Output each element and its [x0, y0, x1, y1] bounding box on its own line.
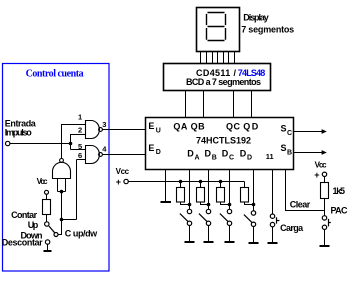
svg-text:BCD a 7 segmentos: BCD a 7 segmentos	[186, 77, 261, 87]
pin 5 label	[78, 142, 82, 151]
svg-text:3: 3	[102, 120, 106, 129]
svg-text:+: +	[314, 170, 319, 180]
svg-text:Vcc: Vcc	[315, 161, 328, 170]
svg-text:S: S	[281, 124, 287, 134]
svg-text:+: +	[116, 177, 121, 187]
svg-text:Impulso: Impulso	[5, 127, 33, 137]
svg-text:PAC: PAC	[331, 206, 349, 216]
svg-text:Contar: Contar	[11, 210, 37, 220]
display pins (7)	[201, 52, 235, 64]
node rail R2	[179, 180, 183, 184]
switch SW1 common	[54, 233, 58, 237]
resistor R4	[217, 182, 230, 205]
wire clear pin	[286, 170, 325, 211]
wire Vcc rail	[128, 181, 244, 183]
switch SW1 down contact	[45, 240, 49, 244]
nand U1B	[86, 146, 103, 164]
svg-text:Display: Display	[243, 12, 268, 22]
resistor R2	[177, 182, 190, 205]
pin 1 label	[78, 113, 82, 122]
svg-text:QC: QC	[226, 122, 241, 132]
switch SW4 (DC)	[220, 209, 232, 241]
label Control cuenta	[26, 69, 84, 80]
wire vcc to resistor	[46, 194, 48, 199]
wire pin6 to junction	[62, 219, 77, 221]
svg-text:D: D	[222, 148, 229, 158]
svg-text:C up/dw: C up/dw	[65, 228, 98, 238]
svg-text:A: A	[195, 155, 200, 162]
label C up/dw	[65, 228, 98, 238]
svg-text:1: 1	[78, 113, 82, 122]
ground (DC)	[225, 241, 235, 243]
wire down contact to ground	[47, 244, 49, 250]
svg-text:Descontar: Descontar	[2, 238, 43, 248]
display DS1 (7-segment)	[197, 8, 240, 52]
switch SW2 (DA)	[180, 209, 192, 241]
svg-text:Vcc: Vcc	[116, 167, 130, 176]
wire resistor to up contact	[46, 215, 48, 222]
label PAC	[331, 206, 349, 216]
control box (blue)	[3, 64, 110, 272]
wire DB pin	[208, 170, 210, 210]
decoder U2 CD4511/74LS48	[164, 64, 271, 91]
ground (DB)	[204, 241, 214, 243]
svg-text:B: B	[287, 149, 292, 156]
label Carga	[280, 223, 304, 233]
label Entrada Impulso	[5, 119, 37, 138]
node DD	[252, 203, 256, 207]
wire R6 to PAC	[324, 199, 326, 216]
ground (DA)	[185, 241, 195, 243]
label Down Descontar	[2, 231, 43, 248]
ground (PAC)	[320, 245, 330, 247]
ground (down)	[44, 250, 52, 252]
switch SW3 (DB)	[199, 209, 211, 241]
label Display 7 segmentos	[241, 12, 294, 34]
wire vcc to R6	[324, 177, 326, 183]
wire QB decoder-counter	[203, 91, 205, 118]
nand U1A	[86, 121, 103, 139]
svg-text:Clear: Clear	[290, 200, 311, 210]
svg-text:1k5: 1k5	[333, 186, 346, 196]
svg-text:Control cuenta: Control cuenta	[26, 69, 84, 80]
pin 2 label	[78, 126, 82, 135]
svg-text:C: C	[229, 155, 234, 162]
svg-text:U: U	[156, 127, 161, 134]
terminal Vcc (control)	[37, 177, 49, 186]
node DB	[207, 203, 211, 207]
wire pin2	[71, 135, 86, 150]
svg-text:E: E	[148, 121, 154, 131]
svg-text:QD: QD	[243, 122, 258, 132]
node DC	[228, 203, 232, 207]
wire pin6	[77, 160, 86, 220]
wire pin1	[62, 125, 86, 159]
ground (carga)	[268, 242, 278, 244]
node U1C input junction	[60, 190, 64, 194]
switch Carga (pushbutton)	[270, 214, 279, 243]
svg-text:D: D	[205, 148, 212, 158]
resistor R5	[241, 182, 254, 205]
terminal Entrada Impulso	[6, 141, 10, 145]
svg-text:2: 2	[78, 126, 82, 135]
svg-text:S: S	[281, 143, 287, 153]
node DA	[188, 203, 192, 207]
resistor R1	[43, 200, 51, 215]
ground (counter)	[161, 201, 172, 203]
svg-text:D: D	[240, 148, 247, 158]
node rail R3	[199, 180, 203, 184]
terminal Vcc + (rail)	[116, 167, 130, 187]
svg-text:74HCTLS192: 74HCTLS192	[196, 135, 251, 145]
switch SW1 lever	[49, 226, 55, 233]
nand U1C (inverter, vertical)	[53, 159, 71, 179]
wire QA decoder-counter	[185, 91, 187, 118]
label Contar Up	[11, 210, 39, 230]
wire pin 11 (carga)	[272, 170, 274, 215]
svg-text:7 segmentos: 7 segmentos	[241, 24, 294, 34]
wire QC decoder-counter	[233, 91, 235, 118]
svg-text:E: E	[148, 143, 154, 153]
label Clear	[290, 200, 311, 210]
wire entrada to junction	[10, 143, 71, 145]
svg-text:B: B	[212, 155, 217, 162]
resistor R6 1k5	[321, 183, 329, 199]
svg-text:D: D	[187, 148, 194, 158]
counter U3 74HCTLS192	[146, 118, 294, 170]
ground (DD)	[249, 242, 259, 244]
svg-text:C: C	[287, 130, 292, 137]
switch SW5 (DD)	[244, 211, 256, 243]
terminal Vcc + (right)	[314, 161, 327, 180]
label 1k5	[333, 186, 346, 196]
pin 6 label	[78, 151, 82, 160]
node SC output arrow	[294, 129, 327, 134]
wire pin4 to ED	[102, 154, 145, 156]
wire DD pin	[253, 170, 255, 211]
svg-text:11: 11	[266, 152, 274, 161]
node SB output arrow	[294, 150, 327, 155]
node entrada junction	[69, 142, 73, 146]
resistor R3	[197, 182, 209, 205]
wire DA pin	[189, 170, 191, 210]
node pin6 junction	[60, 218, 64, 222]
svg-text:QA: QA	[173, 122, 188, 132]
svg-text:Up: Up	[28, 220, 39, 230]
switch PAC (pushbutton)	[322, 216, 331, 246]
switch SW1 up contact	[45, 222, 49, 226]
svg-text:6: 6	[78, 151, 82, 160]
wire pin3 to EU	[102, 129, 145, 131]
svg-text:QB: QB	[191, 122, 206, 132]
wire counter gnd pin	[165, 170, 167, 202]
svg-text:Carga: Carga	[280, 223, 304, 233]
pin 4 label	[102, 144, 107, 153]
node rail R4	[219, 180, 223, 184]
wire DC pin	[229, 170, 231, 210]
wire inverter input down	[58, 192, 61, 235]
svg-text:Vcc: Vcc	[37, 177, 49, 186]
wire pin5	[71, 149, 86, 151]
svg-text:D: D	[156, 149, 161, 156]
svg-text:D: D	[247, 155, 252, 162]
wires U1C inputs tied	[58, 179, 66, 192]
wire QD decoder-counter	[251, 91, 253, 118]
pin 3 label	[102, 120, 106, 129]
